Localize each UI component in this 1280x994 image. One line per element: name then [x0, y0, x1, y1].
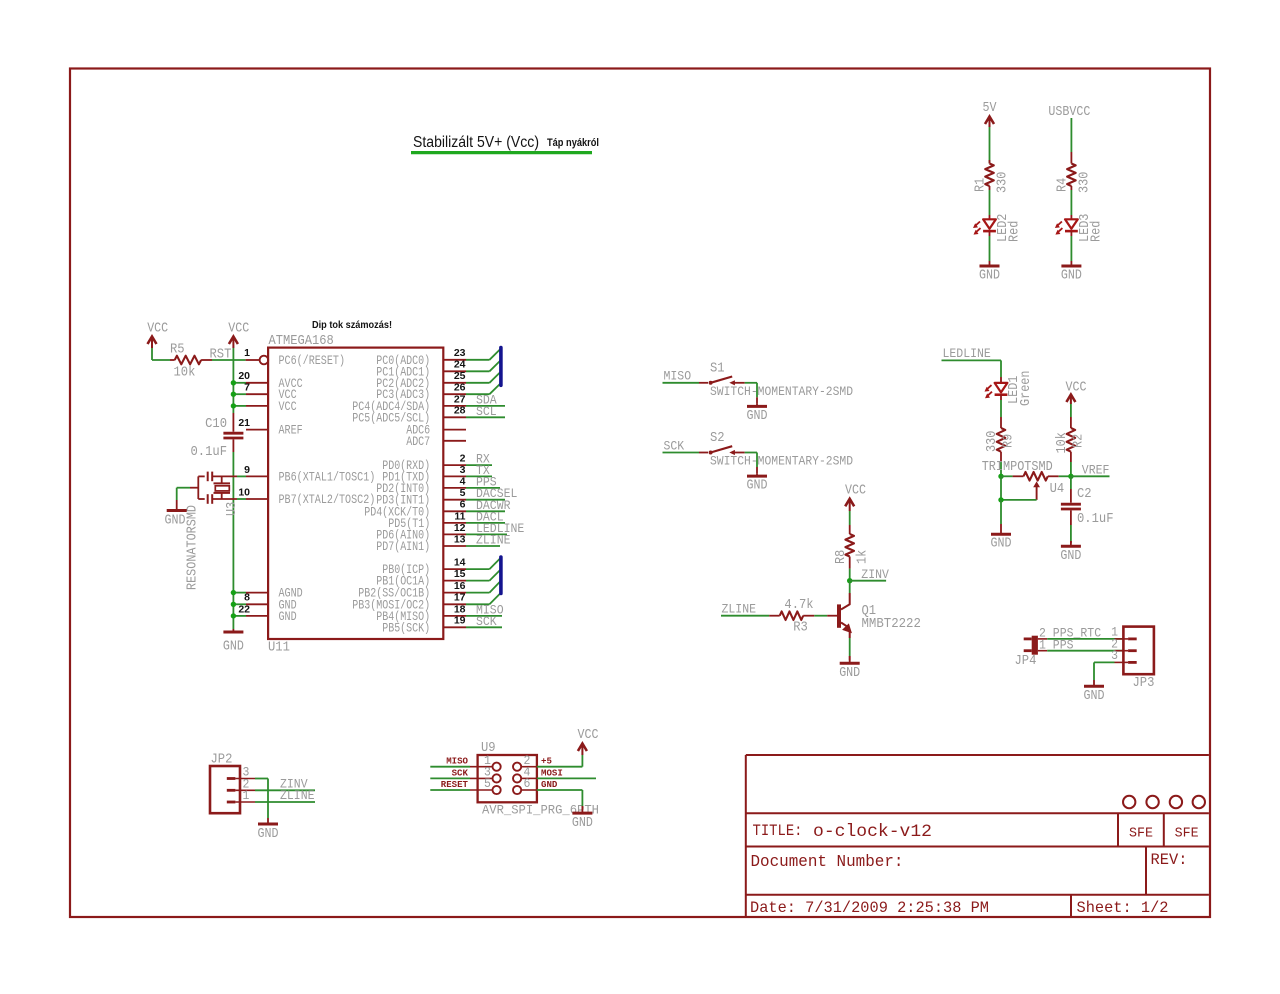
svg-text:9: 9 [244, 464, 250, 476]
svg-text:GND: GND [223, 639, 244, 655]
svg-text:SCK: SCK [664, 438, 685, 453]
wire to bus from pin 23 [466, 349, 500, 360]
resistor R4 330 [1067, 164, 1076, 191]
wire to bus from pin 26 [466, 384, 500, 395]
wire [1000, 400, 1002, 417]
supply 5V [983, 100, 997, 127]
svg-text:20: 20 [238, 370, 250, 382]
wire net TX [466, 475, 492, 477]
svg-text:0.1uF: 0.1uF [191, 445, 228, 460]
svg-text:ZINV: ZINV [861, 567, 889, 582]
wire [745, 383, 757, 404]
bus bar upper [499, 348, 503, 386]
svg-text:Document Number:: Document Number: [751, 853, 904, 872]
pin 25 PC2(ADC2) [376, 370, 466, 391]
wire [152, 348, 175, 360]
svg-text:22: 22 [238, 603, 250, 615]
supply VCC [578, 727, 599, 755]
resistor R5 10k [175, 356, 201, 365]
node ZINV junction [847, 578, 852, 583]
svg-text:GND: GND [279, 609, 297, 624]
resonator U3 RESONATORSMD [190, 472, 237, 504]
resistor R1 330 [985, 160, 994, 190]
wire [663, 452, 709, 454]
svg-text:11: 11 [454, 510, 465, 522]
svg-text:14: 14 [454, 557, 466, 569]
wire [177, 488, 190, 500]
wire [849, 569, 851, 581]
wire [1070, 525, 1072, 543]
svg-text:27: 27 [454, 393, 466, 405]
svg-text:2: 2 [460, 453, 466, 465]
svg-text:21: 21 [238, 417, 250, 429]
svg-text:28: 28 [454, 405, 466, 417]
pin 22 GND [233, 603, 296, 624]
pin 18 PB4(MISO) [376, 603, 466, 624]
wire net VREF [1071, 475, 1110, 477]
svg-text:S2: S2 [710, 431, 725, 446]
svg-text:12: 12 [454, 522, 466, 534]
svg-text:PC6(/RESET): PC6(/RESET) [279, 353, 346, 368]
svg-text:Stabilizált 5V+ (Vcc): Stabilizált 5V+ (Vcc) [413, 134, 539, 151]
resistor R2 10k [1067, 428, 1076, 462]
svg-text:8: 8 [244, 592, 250, 604]
wire to bus from pin 14 [466, 558, 500, 569]
pin 12 PD6(AIN0) [376, 522, 466, 543]
wire RST [201, 359, 259, 361]
ground GND [747, 404, 767, 407]
node junction [998, 497, 1003, 502]
wire [849, 511, 851, 534]
svg-text:REV:: REV: [1151, 851, 1188, 869]
wire [849, 638, 851, 660]
wire to bus from pin 24 [466, 361, 500, 372]
svg-text:MISO: MISO [446, 756, 468, 767]
svg-text:GND: GND [165, 513, 186, 529]
svg-text:10: 10 [238, 486, 250, 498]
pin 14 PB0(ICP) [382, 557, 466, 578]
svg-text:VCC: VCC [1066, 380, 1087, 396]
wire [989, 236, 991, 261]
pin 27 PC4(ADC4/SDA) [352, 393, 466, 414]
wire [745, 453, 757, 474]
LED LED3 Red [1055, 215, 1078, 236]
wire [1070, 190, 1072, 215]
wire [814, 615, 837, 617]
title block circles [1123, 796, 1205, 808]
svg-text:RESET: RESET [441, 779, 468, 790]
wire [537, 755, 583, 767]
node VREF junction [1068, 474, 1073, 479]
svg-text:7: 7 [244, 382, 250, 394]
svg-text:SCL: SCL [476, 404, 497, 419]
svg-text:VCC: VCC [845, 483, 866, 499]
supply VCC [147, 321, 168, 349]
svg-text:VCC: VCC [228, 321, 249, 337]
svg-text:Red: Red [1008, 221, 1023, 242]
wire [721, 615, 780, 617]
pin 24 PC1(ADC1) [376, 359, 466, 380]
wire [255, 779, 268, 819]
pin 1 PC6(/RESET) [244, 347, 345, 368]
svg-text:MMBT2222: MMBT2222 [862, 617, 921, 632]
svg-text:GND: GND [1061, 268, 1082, 284]
svg-text:+5: +5 [541, 756, 552, 767]
pin 19 PB5(SCK) [382, 615, 466, 636]
svg-text:R2: R2 [1071, 434, 1086, 448]
pin 16 PB2(SS/OC1B) [358, 580, 466, 601]
pin 6 GND [513, 776, 558, 794]
svg-text:15: 15 [454, 568, 466, 580]
supply VCC [1066, 380, 1087, 405]
wire net SCK [466, 626, 502, 628]
svg-text:GND: GND [1084, 688, 1105, 704]
pin 5 PD3(INT1) [376, 487, 466, 508]
wire [1070, 236, 1072, 261]
svg-text:PB7(XTAL2/TOSC2): PB7(XTAL2/TOSC2) [279, 492, 376, 507]
node junction [998, 474, 1003, 479]
svg-text:330: 330 [985, 431, 1000, 452]
pin ADC7 [406, 434, 466, 449]
svg-text:ADC7: ADC7 [406, 434, 430, 449]
wire [1001, 476, 1037, 500]
supply VCC [228, 321, 249, 349]
svg-text:3: 3 [1111, 648, 1118, 663]
svg-text:18: 18 [454, 603, 466, 615]
svg-text:330: 330 [1078, 172, 1093, 193]
svg-text:SWITCH-MOMENTARY-2SMD: SWITCH-MOMENTARY-2SMD [710, 384, 853, 399]
svg-text:o-clock-v12: o-clock-v12 [813, 822, 932, 842]
svg-text:VCC: VCC [147, 321, 168, 337]
wire [232, 452, 234, 629]
wire [663, 382, 709, 384]
svg-text:5V: 5V [983, 100, 997, 116]
ground GND [991, 531, 1011, 534]
svg-text:19: 19 [454, 615, 466, 627]
svg-text:AREF: AREF [279, 423, 303, 438]
wire net ZINV [850, 580, 886, 582]
pin 21 AREF [238, 417, 302, 438]
pin 28 PC5(ADC5/SCL) [352, 405, 466, 426]
svg-text:SFE: SFE [1175, 827, 1199, 842]
svg-text:VREF: VREF [1082, 463, 1110, 478]
svg-text:R1: R1 [974, 178, 989, 192]
wire net PPS [1047, 650, 1123, 652]
svg-text:25: 25 [454, 370, 466, 382]
svg-text:Red: Red [1090, 221, 1105, 242]
resistor R8 1k [845, 534, 854, 569]
svg-text:26: 26 [454, 382, 466, 394]
svg-text:Date: 7/31/2009 2:25:38 PM: Date: 7/31/2009 2:25:38 PM [750, 899, 989, 917]
wire net PPS_RTC [1047, 638, 1123, 640]
ground GND [258, 818, 278, 824]
junction dots on VCC rail [231, 380, 236, 409]
wire net MISO [466, 615, 502, 617]
svg-text:17: 17 [454, 592, 466, 604]
pin 11 PD5(T1) [388, 510, 466, 531]
svg-text:R4: R4 [1056, 178, 1071, 192]
svg-text:6: 6 [460, 499, 466, 511]
svg-text:1k: 1k [856, 550, 871, 564]
wire to bus from pin 16 [466, 581, 500, 592]
svg-text:LEDLINE: LEDLINE [943, 346, 991, 361]
capacitor C2 0.1uF [1061, 489, 1081, 525]
pin 1 MISO [430, 753, 500, 771]
ground GND [980, 261, 1000, 266]
svg-text:GND: GND [572, 815, 593, 831]
svg-text:RESONATORSMD: RESONATORSMD [186, 505, 201, 590]
svg-text:PB6(XTAL1/TOSC1): PB6(XTAL1/TOSC1) [279, 469, 376, 484]
switch S1 SWITCH-MOMENTARY-2SMD [709, 377, 745, 386]
svg-text:VCC: VCC [279, 399, 297, 414]
wire net MOSI [537, 777, 596, 779]
svg-text:SFE: SFE [1129, 827, 1153, 842]
svg-text:C10: C10 [205, 417, 227, 432]
wire [1000, 500, 1002, 531]
resistor R9 330 [997, 417, 1006, 462]
svg-text:GND: GND [1060, 548, 1081, 564]
svg-text:RST: RST [210, 348, 232, 363]
wire net PPS [466, 487, 500, 489]
wire net SCL [466, 416, 505, 418]
svg-text:ATMEGA168: ATMEGA168 [269, 334, 334, 349]
svg-text:S1: S1 [710, 361, 725, 376]
wire [989, 190, 991, 215]
connector JP2 body [210, 766, 255, 813]
svg-text:JP4: JP4 [1015, 654, 1037, 669]
pin 9 PB6(XTAL1/TOSC1) [237, 464, 375, 485]
pin AGND [233, 586, 302, 601]
connector JP4 body [1024, 636, 1047, 655]
green underline [411, 151, 592, 154]
connector JP3 body [1115, 627, 1154, 675]
switch S2 SWITCH-MOMENTARY-2SMD [709, 446, 745, 455]
pin 15 PB1(OC1A) [376, 568, 466, 589]
svg-text:ZLINE: ZLINE [476, 533, 511, 548]
wire net ZLINE [255, 801, 315, 803]
svg-text:GND: GND [839, 665, 860, 681]
wire net DACSEL [466, 499, 505, 501]
wire net SDA [466, 405, 505, 407]
svg-text:16: 16 [454, 580, 466, 592]
svg-text:PD7(AIN1): PD7(AIN1) [376, 539, 430, 554]
wire to bus from pin 15 [466, 570, 500, 581]
wire [989, 127, 991, 164]
svg-text:C2: C2 [1077, 487, 1092, 502]
svg-text:13: 13 [454, 533, 466, 545]
pin 17 PB3(MOSI/OC2) [352, 592, 466, 613]
svg-text:U3: U3 [225, 502, 240, 516]
pin VCC [233, 399, 296, 414]
pin 2 +5 [513, 753, 552, 771]
pin 20 AVCC [233, 370, 302, 391]
svg-text:GND: GND [258, 826, 279, 842]
svg-text:MOSI: MOSI [541, 767, 563, 778]
pin ADC6 [406, 423, 466, 438]
wire [849, 581, 851, 593]
wire to bus from pin 17 [466, 593, 500, 604]
svg-text:4: 4 [460, 475, 466, 487]
ground GND [167, 500, 187, 511]
pin 4 MOSI [513, 765, 563, 783]
pin 3 SCK [430, 765, 500, 783]
resistor R3 4.7k [780, 611, 815, 620]
wire [1070, 404, 1072, 428]
svg-text:GND: GND [747, 408, 768, 424]
wire net LEDLINE [466, 533, 507, 535]
svg-text:U4: U4 [1050, 482, 1065, 497]
transistor Q1 MMBT2222 [837, 593, 851, 638]
pin 5 RESET [430, 776, 500, 794]
svg-text:1: 1 [243, 788, 250, 803]
wire net ZINV [255, 789, 315, 791]
pin 8 GND [233, 592, 296, 613]
svg-text:GND: GND [747, 478, 768, 494]
ground GND [747, 473, 767, 476]
pin 2 PD0(RXD) [382, 453, 466, 474]
LED LED1 Green [985, 377, 1008, 400]
svg-text:R8: R8 [834, 550, 849, 564]
svg-text:Green: Green [1019, 371, 1034, 407]
capacitor C10 0.1uF [223, 413, 243, 452]
svg-text:4.7k: 4.7k [784, 598, 813, 613]
svg-text:JP3: JP3 [1133, 676, 1155, 691]
wire [1070, 118, 1072, 164]
ground GND [840, 656, 860, 663]
svg-text:GND: GND [979, 268, 1000, 284]
op-amp U11 ATMEGA168 body [268, 348, 443, 639]
svg-text:MISO: MISO [664, 369, 692, 384]
wire [1000, 462, 1002, 476]
svg-text:TITLE:: TITLE: [753, 822, 803, 840]
svg-text:3: 3 [460, 464, 466, 476]
svg-text:R3: R3 [793, 621, 808, 636]
pin 3 PD1(TXD) [382, 464, 466, 485]
title block frame [746, 755, 1209, 917]
bus bar lower [499, 557, 503, 594]
svg-text:10k: 10k [1055, 432, 1070, 453]
wire net DACWR [466, 510, 505, 512]
wire net DACL [466, 522, 505, 524]
svg-text:10k: 10k [174, 366, 196, 381]
svg-text:SCK: SCK [452, 767, 469, 778]
ground GND [572, 806, 592, 813]
supply VCC [845, 483, 866, 512]
svg-text:Sheet: 1/2: Sheet: 1/2 [1077, 899, 1169, 917]
svg-text:R5: R5 [170, 343, 185, 358]
schematic frame border [70, 69, 1210, 918]
wire [1070, 462, 1072, 476]
pin 13 PD7(AIN1) [376, 533, 466, 554]
svg-text:5: 5 [484, 776, 491, 791]
wire [537, 790, 583, 810]
svg-text:1: 1 [244, 347, 250, 359]
pin 7 VCC [233, 382, 296, 403]
svg-text:R9: R9 [1002, 434, 1017, 448]
svg-text:5: 5 [460, 487, 466, 499]
pin 6 PD4(XCK/T0) [364, 499, 466, 520]
svg-text:GND: GND [991, 536, 1012, 552]
svg-text:SWITCH-MOMENTARY-2SMD: SWITCH-MOMENTARY-2SMD [710, 454, 853, 469]
ground GND [223, 629, 243, 632]
svg-text:ZLINE: ZLINE [280, 788, 315, 803]
wire [1094, 662, 1115, 680]
svg-text:24: 24 [454, 359, 466, 371]
svg-text:VCC: VCC [578, 727, 599, 743]
svg-text:ZLINE: ZLINE [722, 602, 757, 617]
LED LED2 Red [973, 215, 996, 236]
svg-text:PB5(SCK): PB5(SCK) [382, 620, 430, 635]
svg-text:JP2: JP2 [211, 753, 233, 768]
wire to bus from pin 25 [466, 372, 500, 383]
svg-text:23: 23 [454, 347, 466, 359]
pin 4 PD2(INT0) [376, 475, 466, 496]
svg-text:SCK: SCK [476, 614, 497, 629]
junction dots on GND rail [231, 590, 236, 619]
pin 23 PC0(ADC0) [376, 347, 466, 368]
svg-text:330: 330 [996, 172, 1011, 193]
svg-text:GND: GND [541, 779, 558, 790]
pin 10 PB7(XTAL2/TOSC2) [237, 486, 375, 507]
ground GND [1084, 680, 1104, 686]
svg-text:USBVCC: USBVCC [1048, 104, 1090, 120]
svg-text:6: 6 [524, 776, 531, 791]
svg-text:Dip tok számozás!: Dip tok számozás! [312, 319, 392, 331]
connector U9 body [478, 755, 537, 802]
ground GND [1061, 261, 1081, 266]
pin 26 PC3(ADC3) [376, 382, 466, 403]
wire [942, 360, 1002, 377]
trimpot U4 body [1001, 472, 1071, 481]
wire net RX [466, 464, 492, 466]
svg-text:Táp nyákról: Táp nyákról [547, 137, 599, 149]
svg-text:0.1uF: 0.1uF [1077, 512, 1114, 527]
ground GND [1061, 541, 1081, 546]
wire VCC rail [232, 348, 234, 413]
svg-text:U11: U11 [268, 641, 290, 656]
trimpot wiper arrow [1033, 481, 1040, 500]
wire net ZLINE [466, 545, 500, 547]
wire [1070, 476, 1072, 489]
